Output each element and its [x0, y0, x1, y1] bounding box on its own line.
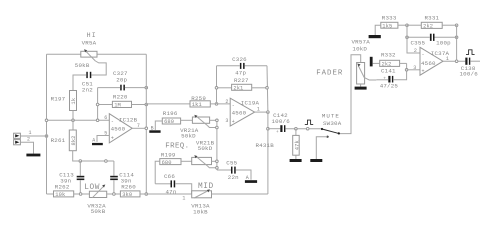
wire VR21A wiper tap	[207, 126, 217, 128]
wire R331 right lead	[442, 24, 456, 26]
svg-text:47k: 47k	[294, 140, 300, 150]
wire C327 right lead	[125, 87, 146, 89]
square wave symbol output	[466, 50, 475, 55]
wire bottom row to MID pot	[146, 193, 191, 195]
op-amp U IC12B	[104, 114, 140, 143]
svg-text:R196: R196	[163, 110, 178, 117]
capacitor C327	[113, 70, 128, 90]
svg-text:50kB: 50kB	[91, 208, 106, 215]
node VR21B tap	[216, 167, 219, 170]
svg-text:-: -	[111, 118, 114, 124]
wire pin3 row	[407, 69, 420, 71]
wire C327 left lead	[98, 87, 121, 89]
wire pot to R260	[107, 193, 121, 195]
svg-text:VR5A: VR5A	[82, 39, 97, 46]
svg-text:2n2: 2n2	[82, 87, 93, 94]
svg-text:R332: R332	[381, 52, 396, 59]
wire R227 left lead	[217, 87, 232, 89]
wire feedback right vertical	[456, 25, 458, 61]
resistor R196	[162, 110, 180, 125]
wire R331 left lead	[407, 24, 421, 26]
svg-text:1M: 1M	[114, 103, 121, 109]
node pin3 row	[216, 119, 219, 122]
node bottom row on mid bus	[145, 193, 148, 196]
capacitor C51	[82, 72, 93, 94]
resistor R333	[381, 14, 398, 29]
resistor R260	[120, 184, 140, 198]
wire R260 right to mid bus	[140, 193, 146, 195]
svg-text:HI: HI	[87, 32, 97, 39]
wire C141 right lead up	[393, 63, 406, 79]
capacitor C355	[411, 34, 452, 47]
svg-text:+: +	[232, 119, 235, 125]
svg-text:+: +	[276, 130, 279, 135]
ground under pin 2	[26, 153, 40, 157]
node R220 left	[96, 103, 99, 106]
svg-text:20p: 20p	[116, 76, 127, 83]
node R197 bottom	[72, 119, 75, 122]
svg-text:2k2: 2k2	[382, 62, 392, 68]
wire C51 left lead down to R197	[73, 75, 86, 91]
capacitor C138 (electrolytic)	[460, 58, 479, 78]
svg-text:3: 3	[225, 118, 228, 124]
node output feedback	[455, 60, 458, 63]
wire C66 right lead to MID pot	[175, 184, 192, 194]
svg-text:4560: 4560	[111, 126, 126, 133]
svg-text:+: +	[422, 68, 425, 74]
capacitor C66	[164, 173, 177, 196]
ground under VR57A	[355, 87, 367, 90]
svg-text:47/25: 47/25	[380, 83, 399, 90]
wire C138 right lead to edge	[470, 60, 480, 62]
wire VR5A wiper tap	[91, 61, 106, 75]
wire feedback left vertical to pin2	[407, 25, 420, 53]
capacitor C326	[232, 56, 247, 76]
potentiometer VR32A	[87, 185, 106, 215]
wire IC19A output	[255, 111, 268, 113]
wire R259 right to pin2	[210, 103, 230, 105]
potentiometer VR5A	[75, 39, 97, 69]
capacitor C113	[59, 171, 84, 184]
svg-text:50kD: 50kD	[181, 132, 196, 139]
wire left bus vertical	[46, 54, 48, 194]
resistor R431B	[256, 129, 301, 156]
node C355 left	[406, 36, 409, 39]
wire R261 top lead	[72, 120, 74, 130]
wire IC37A output	[443, 60, 465, 62]
svg-text:MUTE: MUTE	[322, 113, 340, 120]
wire C355 right lead	[435, 36, 457, 38]
wire R261 bottom to low band row	[73, 151, 114, 161]
wire C326 left lead	[217, 65, 240, 67]
wire inverting input row	[47, 119, 110, 121]
svg-text:47p: 47p	[235, 70, 246, 77]
wire C114 lower lead	[113, 180, 115, 194]
svg-text:R260: R260	[121, 184, 136, 191]
connector J1 pin 2	[14, 140, 21, 145]
wire R199 left down	[155, 161, 160, 184]
resistor R199	[160, 152, 181, 166]
wire C55 right lead to ground	[236, 170, 251, 180]
svg-text:R431B: R431B	[256, 142, 275, 149]
svg-text:100/6: 100/6	[272, 118, 291, 125]
svg-text:22n: 22n	[228, 174, 239, 181]
wire mid bus vertical	[145, 54, 147, 194]
wire R332 right lead	[400, 62, 407, 64]
wire VR57A bottom to ground	[360, 84, 362, 87]
svg-text:R227: R227	[234, 77, 249, 84]
ground at R333	[369, 35, 381, 38]
svg-text:10k: 10k	[55, 192, 65, 198]
op-amp U IC19A	[225, 98, 260, 126]
svg-text:50kD: 50kD	[198, 145, 213, 152]
node R331 right	[455, 24, 458, 27]
ground under switch	[310, 159, 322, 162]
svg-text:A: A	[92, 138, 95, 144]
wire bottom row: bus to R262	[47, 193, 54, 195]
wire R227 right lead	[252, 87, 267, 89]
wire pin1 to bus node	[20, 135, 46, 137]
svg-text:R197: R197	[51, 95, 66, 102]
wire VR21A right lead	[210, 119, 217, 121]
wire R262 to pot	[74, 193, 90, 195]
op-amp U IC37A	[413, 47, 449, 75]
svg-text:680: 680	[164, 119, 174, 125]
node IC19A output	[267, 111, 270, 114]
svg-text:3k0: 3k0	[122, 192, 132, 198]
svg-text:2: 2	[27, 137, 30, 143]
svg-text:IC19A: IC19A	[241, 100, 260, 107]
ground under R431B	[290, 155, 302, 162]
node C113 top	[79, 160, 82, 163]
svg-text:2k2: 2k2	[423, 23, 433, 29]
svg-text:R259: R259	[191, 95, 206, 102]
wire C142 left lead	[268, 128, 280, 130]
wire VR21B right lead	[212, 160, 217, 162]
wire VR5A right to mid bus	[97, 53, 146, 55]
resistor R197	[51, 91, 78, 111]
node C327 branch	[96, 119, 99, 122]
wire feedback left vertical	[216, 66, 218, 104]
svg-text:C66: C66	[164, 173, 175, 180]
wire R220 left lead	[98, 104, 113, 106]
capacitor C114	[110, 171, 134, 184]
svg-text:R220: R220	[113, 93, 128, 100]
svg-text:4560: 4560	[421, 60, 436, 67]
svg-text:-: -	[232, 102, 235, 108]
wire R220 right lead	[132, 104, 147, 106]
svg-text:A: A	[246, 175, 249, 181]
wire R199 right to VR21B	[181, 160, 192, 162]
net B bar right of output	[149, 126, 160, 133]
wire C114 upper lead	[113, 161, 115, 176]
resistor R331	[421, 14, 442, 29]
svg-text:1k5: 1k5	[382, 23, 392, 29]
svg-text:2: 2	[414, 48, 417, 54]
node R431B top	[295, 127, 298, 130]
svg-text:MID: MID	[198, 183, 214, 191]
switch SW30A MUTE	[321, 113, 342, 138]
wire switch output up to fader	[340, 55, 361, 134]
node wiper tap	[216, 126, 219, 129]
resistor R261	[51, 130, 78, 151]
svg-text:10kB: 10kB	[193, 208, 208, 215]
node on low row	[105, 160, 108, 163]
svg-text:2k1: 2k1	[233, 86, 243, 92]
wire C66 left lead	[155, 183, 170, 185]
potentiometer VR13A	[191, 189, 211, 215]
svg-text:IC12B: IC12B	[119, 116, 138, 123]
net bar at R332 left	[370, 57, 373, 67]
wire C355 left lead	[407, 36, 430, 38]
wire C113 lower lead	[79, 180, 81, 194]
svg-text:4560: 4560	[232, 110, 247, 117]
potentiometer VR21B	[192, 155, 212, 166]
svg-text:R331: R331	[425, 14, 440, 21]
svg-text:3: 3	[413, 65, 416, 71]
node feedback left	[215, 103, 218, 106]
svg-text:C355: C355	[411, 39, 426, 46]
wire R196 right to VR21A	[181, 119, 193, 121]
svg-text:C326: C326	[232, 56, 247, 63]
potentiometer VR21A	[180, 115, 209, 140]
svg-text:10kD: 10kD	[352, 46, 367, 53]
svg-text:1k1: 1k1	[192, 102, 202, 108]
resistor R259	[190, 95, 210, 108]
node R220 right on bus	[145, 103, 148, 106]
wire pin2 bend down	[20, 142, 33, 152]
wire VR21B wiper tap	[207, 166, 217, 168]
node feedback left top	[406, 24, 409, 27]
node C355 right	[455, 36, 458, 39]
svg-text:R333: R333	[382, 14, 397, 21]
wire bus to VR5A left	[47, 53, 81, 55]
potentiometer VR57A	[352, 39, 371, 84]
wire C142 right lead	[285, 128, 322, 130]
resistor R262	[54, 184, 74, 198]
svg-text:FREQ.: FREQ.	[165, 143, 189, 151]
resistor R332	[380, 52, 400, 68]
wire C55 left lead	[217, 169, 231, 171]
wire R333 right lead	[398, 24, 407, 26]
node bus / row	[45, 119, 48, 122]
svg-text:1k: 1k	[71, 98, 77, 105]
node C113 bottom	[79, 193, 82, 196]
svg-text:100/6: 100/6	[460, 71, 479, 78]
wire IC12B output	[132, 127, 146, 129]
wire C326 right lead	[245, 65, 267, 67]
wire switch throw 2 to ground	[316, 137, 327, 159]
node R227 left	[215, 87, 218, 90]
svg-text:100p: 100p	[436, 39, 451, 46]
resistor R220	[112, 93, 131, 108]
square wave symbol	[305, 120, 313, 124]
svg-text:1: 1	[182, 195, 185, 201]
wire C327 left node vertical	[97, 88, 99, 121]
svg-text:R262: R262	[55, 184, 70, 191]
resistor R227	[232, 77, 252, 91]
wire C141 left lead	[376, 79, 388, 81]
svg-text:-: -	[422, 51, 425, 57]
wire output loop vertical	[267, 112, 269, 194]
svg-text:8k2: 8k2	[71, 135, 77, 145]
svg-text:2: 2	[225, 99, 228, 105]
svg-text:+: +	[111, 135, 114, 141]
node C114 bottom	[113, 193, 116, 196]
svg-text:C55: C55	[226, 160, 237, 167]
wire R332 left lead	[373, 62, 380, 64]
svg-text:SW30A: SW30A	[323, 120, 342, 127]
net A bar at IC12B pin5	[92, 138, 103, 146]
capacitor C142 (electrolytic)	[272, 112, 291, 135]
svg-text:R199: R199	[161, 152, 176, 159]
ground net A at C55	[245, 175, 257, 183]
wire R333 left to ground	[375, 25, 381, 35]
node C142 row tee	[267, 127, 270, 130]
wire VR13A right to output loop	[212, 193, 268, 195]
node R227 right	[266, 87, 269, 90]
svg-text:6: 6	[104, 115, 107, 121]
svg-text:C141: C141	[381, 68, 396, 75]
node IC12B output on bus	[145, 127, 148, 130]
capacitor C141 (electrolytic)	[380, 68, 399, 90]
wire R196 left lead to net B	[155, 121, 162, 130]
svg-text:680: 680	[162, 160, 172, 166]
wire VR57A wiper tap to C141	[364, 78, 376, 80]
capacitor C55	[226, 160, 239, 182]
svg-text:50kB: 50kB	[75, 62, 90, 69]
svg-text:1: 1	[29, 130, 32, 136]
svg-text:R261: R261	[51, 137, 66, 144]
node IC37A pin3 branch	[405, 69, 408, 72]
node VR21B right	[216, 160, 219, 163]
node: input bus junction	[45, 135, 48, 138]
wire pin2 row from mid bus	[146, 103, 190, 105]
node C327 right on bus	[145, 86, 148, 89]
wire feedback right vertical	[266, 66, 269, 112]
svg-text:+: +	[383, 76, 386, 81]
wire pin3 vertical	[216, 120, 218, 170]
node test point	[306, 127, 309, 130]
connector J1 pin 1	[14, 133, 21, 138]
wire C113 upper lead	[79, 161, 81, 176]
wire R197 bottom to row	[72, 111, 74, 121]
svg-text:FADER: FADER	[316, 70, 343, 78]
wire IC12B pin5 to net A	[97, 136, 109, 142]
